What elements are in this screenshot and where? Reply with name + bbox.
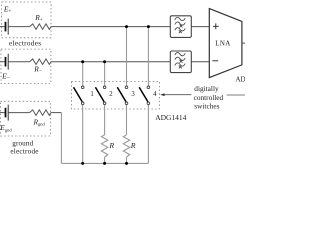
svg-text:AD8421: AD8421 [236, 76, 246, 84]
svg-text:LNA: LNA [215, 39, 230, 47]
svg-text:E+: E+ [3, 5, 12, 15]
svg-text:R−: R− [33, 65, 42, 75]
svg-text:electrodes: electrodes [9, 40, 41, 48]
svg-text:3: 3 [131, 91, 135, 98]
svg-text:electrode: electrode [10, 148, 38, 156]
svg-text:1: 1 [90, 91, 93, 98]
svg-text:2: 2 [109, 91, 113, 98]
svg-text:R+: R+ [34, 13, 43, 23]
svg-text:E−: E− [1, 71, 10, 81]
svg-text:ground: ground [12, 139, 33, 147]
svg-text:switches: switches [194, 101, 219, 110]
svg-text:Egnd: Egnd [0, 123, 12, 132]
svg-text:Rgnd: Rgnd [33, 117, 46, 126]
svg-text:4: 4 [153, 91, 157, 98]
svg-text:R: R [130, 141, 136, 150]
svg-text:R: R [108, 141, 114, 150]
svg-text:ADG1414: ADG1414 [155, 113, 186, 122]
